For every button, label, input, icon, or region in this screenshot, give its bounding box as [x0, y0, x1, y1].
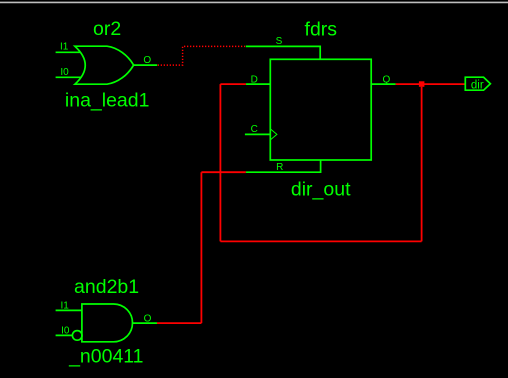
svg-text:or2: or2 — [93, 18, 121, 40]
svg-text:I1: I1 — [60, 41, 69, 52]
svg-text:I1: I1 — [61, 301, 70, 312]
net wire and2b1 O horizontal — [157, 322, 201, 324]
svg-text:S: S — [276, 36, 283, 47]
flip-flop dir_out (fdrs) body — [270, 59, 371, 160]
svg-text:O: O — [144, 313, 152, 324]
pin I0 lead of _n00411 — [56, 334, 73, 336]
pin D lead of dir_out — [246, 83, 270, 85]
pin R lead of dir_out — [246, 160, 321, 172]
and-gate _n00411 (and2b1) body — [82, 304, 133, 342]
net wire into R — [201, 171, 245, 173]
feedback wire stub into D — [220, 83, 246, 85]
svg-text:R: R — [276, 162, 283, 173]
pin C lead of dir_out — [245, 133, 270, 135]
pin O lead of _n00411 — [133, 322, 158, 324]
pin I1 lead of ina_lead1 — [56, 51, 81, 53]
svg-text:I0: I0 — [61, 326, 70, 337]
feedback wire horizontal bottom — [220, 240, 421, 242]
net junction at Q branch — [419, 81, 425, 87]
output port dir shape — [465, 77, 490, 90]
inverter bubble on I0 — [72, 331, 82, 341]
net wire and2b1 O vertical — [200, 172, 202, 323]
svg-text:C: C — [251, 124, 258, 135]
or-gate ina_lead1 (or2) body — [75, 46, 134, 84]
window top border — [0, 1, 508, 3]
dotted net wire from ina_lead1 O to fdrs S — [158, 46, 245, 65]
svg-text:_n00411: _n00411 — [68, 345, 143, 367]
svg-text:O: O — [143, 55, 151, 66]
svg-text:Q: Q — [383, 74, 391, 85]
pin S lead of dir_out — [246, 46, 321, 59]
svg-text:fdrs: fdrs — [305, 18, 338, 40]
svg-text:ina_lead1: ina_lead1 — [65, 90, 150, 112]
svg-text:dir: dir — [471, 79, 484, 91]
feedback wire vertical from junction — [421, 87, 423, 242]
pin I0 lead of ina_lead1 — [56, 76, 81, 78]
svg-text:and2b1: and2b1 — [74, 276, 139, 298]
svg-text:D: D — [251, 74, 258, 85]
clock triangle on pin C — [271, 129, 277, 139]
net wire Q to output port dir — [396, 83, 466, 85]
pin I1 lead of _n00411 — [56, 309, 82, 311]
pin O lead of ina_lead1 — [134, 64, 158, 66]
svg-text:dir_out: dir_out — [291, 178, 351, 200]
svg-text:I0: I0 — [60, 67, 69, 78]
feedback wire vertical left — [219, 84, 221, 241]
pin Q lead of dir_out — [371, 83, 396, 85]
